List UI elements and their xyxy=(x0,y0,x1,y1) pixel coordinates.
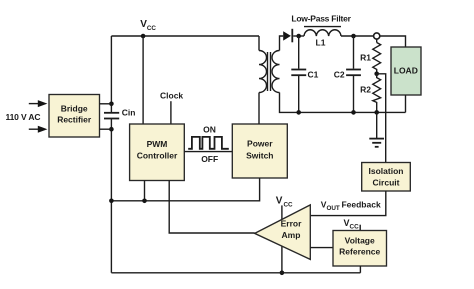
node output terminal circle xyxy=(374,33,380,39)
capacitor C1 xyxy=(291,36,306,112)
resistor R1 xyxy=(373,39,381,74)
svg-text:Controller: Controller xyxy=(137,151,178,161)
svg-text:C1: C1 xyxy=(308,70,319,80)
transformer T1 core xyxy=(268,52,271,91)
svg-text:LOAD: LOAD xyxy=(394,65,418,75)
wire: L1 to load node xyxy=(341,35,374,37)
transformer T1 secondary winding xyxy=(272,51,279,93)
node C2 bottom xyxy=(351,110,356,115)
svg-text:Error: Error xyxy=(281,218,302,228)
svg-text:R1: R1 xyxy=(360,52,371,62)
wire: left bus upper xyxy=(110,36,112,112)
waveform symbol xyxy=(188,137,229,149)
wire: error amp lower input xyxy=(310,247,333,249)
wire: PWM to power switch xyxy=(184,151,232,153)
wire: diode to L1 xyxy=(293,35,304,37)
svg-text:Reference: Reference xyxy=(339,247,380,257)
node C1 bottom xyxy=(296,110,301,115)
wire: power switch return xyxy=(111,178,259,201)
wire: PWM ground stub xyxy=(144,181,146,201)
isolation circuit U3 xyxy=(362,163,411,192)
inductor L1 core line xyxy=(304,26,341,28)
inductor L1 xyxy=(304,30,341,36)
svg-text:Bridge: Bridge xyxy=(61,104,88,114)
svg-text:Cin: Cin xyxy=(122,107,136,117)
diode D1 xyxy=(283,29,292,43)
node return-bus junction xyxy=(109,199,114,204)
node R2 bottom xyxy=(374,110,379,115)
wire: isolation output to error amp xyxy=(310,191,386,216)
wire: error amp Vcc stub xyxy=(281,205,283,272)
svg-text:Isolation: Isolation xyxy=(369,166,404,176)
wire: terminal to load corner xyxy=(380,36,406,47)
node PWM stub junction xyxy=(142,199,147,204)
svg-text:110 V AC: 110 V AC xyxy=(6,112,41,122)
input arrow top xyxy=(29,100,48,107)
svg-text:Circuit: Circuit xyxy=(373,177,400,187)
svg-text:Switch: Switch xyxy=(246,150,273,160)
node C1 junction xyxy=(296,34,301,39)
voltage reference U5 xyxy=(333,231,387,267)
input arrow bottom xyxy=(29,126,48,133)
wire: top Vcc rail xyxy=(111,35,259,37)
node feedback tap dot xyxy=(374,72,379,77)
svg-text:L1: L1 xyxy=(316,37,326,47)
ground xyxy=(369,112,384,146)
node bridge top junction xyxy=(109,102,114,107)
power switch Q1 xyxy=(232,124,287,178)
wire: bridge output top xyxy=(100,103,112,105)
svg-text:C2: C2 xyxy=(334,70,345,80)
wire: secondary top xyxy=(280,36,284,51)
wire: primary bottom to power switch xyxy=(258,93,260,125)
svg-text:ON: ON xyxy=(203,125,216,135)
svg-text:Power: Power xyxy=(247,139,273,149)
svg-text:PWM: PWM xyxy=(147,139,168,149)
wire: primary top from rail xyxy=(258,36,260,51)
svg-text:R2: R2 xyxy=(360,85,371,95)
wire: clock stub xyxy=(170,101,172,124)
PWM controller U2 xyxy=(130,124,185,181)
svg-text:Voltage: Voltage xyxy=(345,236,375,246)
wire: left bus lower xyxy=(110,119,112,273)
node C2 junction xyxy=(351,34,356,39)
wire: bottom common rail xyxy=(111,272,360,274)
resistor R2 xyxy=(373,74,381,113)
capacitor C2 xyxy=(346,36,361,112)
transformer T1 primary winding xyxy=(259,51,267,93)
svg-text:Rectifier: Rectifier xyxy=(57,115,92,125)
wire: Vcc stub voltage reference xyxy=(359,225,361,231)
wire: Vcc drop to PWM xyxy=(142,36,144,124)
wire: bridge output bottom xyxy=(100,128,112,130)
wire: load bottom stub xyxy=(405,95,407,112)
svg-text:Amp: Amp xyxy=(282,230,301,240)
capacitor Cin xyxy=(104,113,119,119)
node error amp bottom junction xyxy=(280,271,285,276)
node bridge bottom junction xyxy=(109,127,114,132)
bridge rectifier U1 xyxy=(49,95,100,138)
wire: output bottom rail xyxy=(280,93,406,113)
load RL xyxy=(391,47,421,95)
svg-text:Low-Pass Filter: Low-Pass Filter xyxy=(291,14,351,24)
op-amp error amp U4 xyxy=(255,205,311,260)
svg-text:Clock: Clock xyxy=(160,91,183,101)
wire: voltage reference bottom stub xyxy=(359,266,361,273)
node Vcc dot xyxy=(141,34,146,39)
wire: feedback tap to isolation xyxy=(377,74,386,163)
svg-text:OFF: OFF xyxy=(201,154,218,164)
wire: error amp output to PWM xyxy=(169,181,255,234)
